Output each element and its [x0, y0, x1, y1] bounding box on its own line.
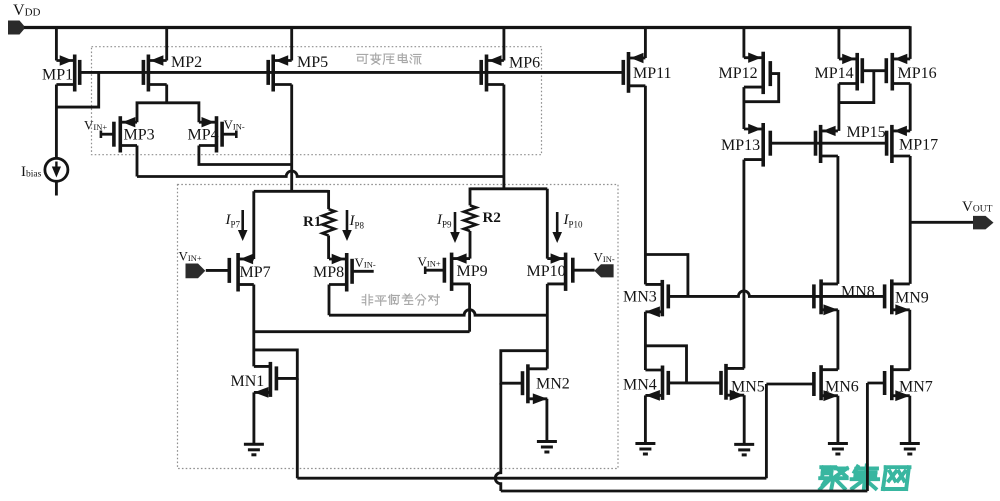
- input flag VIN- at MP10: [594, 264, 613, 277]
- wire: MP14 gate-drain diode tie: [839, 71, 874, 103]
- svg-text:VOUT: VOUT: [962, 199, 993, 215]
- wire: MP6 drain down to diff-pair right rail: [502, 85, 505, 189]
- svg-text:VIN+: VIN+: [179, 249, 202, 264]
- VOUT output flag: [973, 216, 994, 230]
- svg-text:MN8: MN8: [841, 284, 875, 301]
- wire: MP7 gate lead: [206, 269, 230, 272]
- wire: MP10 drain down to MN2 drain: [546, 284, 549, 369]
- svg-text:MP15: MP15: [847, 124, 886, 141]
- svg-text:MP2: MP2: [171, 54, 202, 71]
- wire: bottom rail 1 from MN1 gate to MN6 gate: [297, 477, 766, 480]
- svg-text:R2: R2: [483, 210, 501, 226]
- svg-text:MP5: MP5: [297, 54, 328, 71]
- wire: MP14 gate rail to MP16 gate: [862, 69, 886, 72]
- current arrow I_P8: [342, 210, 352, 241]
- wire: MN9 source down to MN7 drain: [908, 310, 911, 370]
- wire: MP3-drain to MP6-drain rail with hop over MP5 drain: [137, 171, 504, 176]
- ground at MN7: [900, 444, 920, 455]
- svg-text:MP9: MP9: [457, 263, 488, 280]
- wire: MP11 drain dogleg to MN3 gate rail: [645, 255, 688, 297]
- wire: MN1 gate-drain diode tie: [254, 350, 297, 379]
- watermark text 可变尾电流: [357, 53, 421, 64]
- wire: MN2 source to ground: [545, 399, 548, 442]
- wire: MP2 drain down to MP3/MP4 source rail: [165, 85, 168, 103]
- wire: MP15 drain down to MN8 drain: [836, 156, 839, 284]
- wire: VDD rail end down to MP16 source: [909, 26, 912, 59]
- wire: MP8 drain down to cross rail: [328, 285, 331, 316]
- wire: VDD to MP5 source: [290, 26, 293, 60]
- wire: MN7 source to ground: [908, 396, 911, 444]
- svg-text:IP8: IP8: [349, 213, 365, 231]
- watermark text 非平衡差分对: [362, 294, 439, 305]
- wire: MN2 gate node down to bottom rail 2 (hops over rail 1): [495, 383, 501, 491]
- svg-text:MP16: MP16: [898, 65, 937, 82]
- wire: right diff-pair source rail (R2/MP10): [470, 187, 547, 190]
- wire: MP13 drain down to MN5 drain: [742, 160, 745, 369]
- wire: MP3 drain down to long tail rail: [136, 146, 139, 177]
- svg-text:MP10: MP10: [527, 263, 566, 280]
- svg-text:VIN-: VIN-: [224, 117, 245, 132]
- wire: MP12 gate-drain diode connection: [744, 74, 779, 102]
- transistor MN3: [645, 280, 668, 317]
- wire: MN2 gate-drain diode tie: [501, 351, 548, 384]
- wire: R1 bottom lead to MP8 source: [327, 236, 330, 260]
- svg-text:MP11: MP11: [633, 65, 672, 82]
- dashed box: variable tail current group: [92, 47, 542, 155]
- wire: MN4-MN5 gate rail: [668, 381, 721, 384]
- transistor MN6: [814, 365, 838, 401]
- wire: MN6 gate lead: [766, 383, 814, 386]
- wire: MP16 drain down to MP17 source: [909, 84, 912, 131]
- ground at MN1: [244, 444, 264, 455]
- wire: Ibias bottom stub: [55, 181, 58, 195]
- transistor MP6: [481, 55, 504, 92]
- wire: MP3/MP4 common source rail: [137, 103, 199, 122]
- wire: MN7 gate lead: [867, 382, 884, 385]
- transistor MP5: [268, 55, 292, 92]
- svg-text:IP9: IP9: [436, 212, 452, 230]
- transistor MP4: [199, 116, 222, 152]
- svg-text:MN5: MN5: [731, 379, 765, 396]
- ground at MN5: [734, 444, 754, 455]
- current arrow I_P9: [450, 212, 460, 243]
- svg-text:MP1: MP1: [42, 67, 73, 84]
- wire: VDD to MP11 source: [644, 26, 647, 58]
- transistor MP13: [744, 123, 770, 167]
- svg-text:VIN+: VIN+: [418, 254, 441, 269]
- current source Ibias: [45, 158, 68, 181]
- wire: VDD to MP1 source: [55, 26, 58, 60]
- transistor MP14: [839, 53, 862, 91]
- svg-text:MP13: MP13: [721, 137, 760, 154]
- svg-text:MN9: MN9: [895, 290, 929, 307]
- svg-text:MN3: MN3: [623, 289, 657, 306]
- transistor MP7: [229, 253, 254, 292]
- svg-text:VDD: VDD: [13, 2, 41, 19]
- svg-text:R1: R1: [303, 214, 321, 230]
- wire: bottom rail 2 riser to MN7 gate: [866, 383, 869, 491]
- resistor R2: [464, 205, 476, 231]
- transistor MN4: [645, 366, 668, 401]
- svg-text:MP17: MP17: [899, 137, 938, 154]
- wire: MN3/MN8/MN9 gate rail with hop over MP13-MN5 column: [668, 291, 884, 296]
- transistor MP3: [114, 116, 137, 152]
- svg-text:IP7: IP7: [225, 212, 241, 230]
- ground at MN4: [635, 444, 655, 455]
- current arrow I_P7: [238, 210, 248, 241]
- transistor MP17: [887, 125, 911, 163]
- wire: cascode gate rail MP13-MP15-MP17: [770, 142, 886, 145]
- wire: VDD to MP2 source: [165, 26, 168, 60]
- wire: MP4 gate lead with input tick: [222, 131, 236, 139]
- svg-text:MN7: MN7: [899, 379, 933, 396]
- svg-text:Ibias: Ibias: [21, 164, 42, 180]
- wire: MN4 source to ground: [644, 395, 647, 443]
- wire: R1 top lead: [327, 190, 330, 209]
- wire: MP17 drain down to VOUT node and MN9 drain: [909, 156, 912, 284]
- resistor R1: [322, 209, 334, 235]
- transistor MN2: [523, 364, 548, 404]
- wire: MP14 drain down to MP15 source: [837, 84, 840, 131]
- wire: MP12 drain down to MP13 source: [742, 87, 745, 129]
- transistor MP1: [56, 55, 79, 92]
- ground at MN2: [537, 442, 557, 453]
- wire: MN3 source tie to MN4/MN5 gate rail: [645, 346, 686, 383]
- transistor MP12: [744, 52, 770, 94]
- wire: bottom rail 1 riser to MN6 gate: [765, 384, 768, 478]
- transistor MP11: [623, 52, 645, 93]
- svg-text:MP8: MP8: [313, 264, 344, 281]
- transistor MN9: [885, 279, 910, 315]
- wire: MN1 gate node down to bottom rail: [296, 378, 299, 478]
- wire: MP5 drain down to diff-pair left rail (crosses tail rail): [290, 85, 293, 192]
- svg-text:MN4: MN4: [623, 377, 657, 394]
- wire: R2 top lead: [469, 188, 472, 206]
- input flag VIN+ at MP7: [186, 264, 206, 279]
- transistor MP16: [886, 53, 910, 91]
- watermark logo 聚集网: [820, 466, 909, 490]
- wire: MP3 gate lead with input tick: [101, 131, 114, 139]
- wire: MP9 gate lead with input tick: [425, 267, 444, 275]
- svg-text:MP3: MP3: [124, 127, 155, 144]
- wire: MP8-MP10 drain rail with hop over MP9 drain: [329, 310, 547, 316]
- wire: left diff-pair source rail (MP7/R1): [254, 190, 329, 193]
- transistor MP2: [143, 55, 166, 92]
- svg-text:VIN-: VIN-: [594, 250, 615, 265]
- transistor MN5: [721, 364, 744, 401]
- transistor MN7: [885, 365, 910, 401]
- VDD input flag: [8, 21, 26, 35]
- wire: MN5 source to ground: [743, 395, 746, 444]
- wire: bottom rail 2 from MN2 gate to MN7 gate: [501, 490, 868, 493]
- current arrow I_P10: [552, 212, 562, 243]
- ground at MN6: [828, 444, 848, 455]
- wire: MN6 source to ground: [836, 396, 839, 444]
- transistor MN8: [814, 279, 838, 315]
- wire: MP4 drain dogleg to MP5 drain column: [199, 146, 292, 165]
- svg-text:MN1: MN1: [231, 373, 265, 390]
- svg-text:MP14: MP14: [815, 65, 854, 82]
- svg-text:MN6: MN6: [825, 379, 859, 396]
- transistor MN1: [254, 362, 277, 398]
- wire: MP7 drain down to MN1 drain: [252, 285, 255, 367]
- transistor MP10: [547, 253, 573, 291]
- wire: R2 bottom lead to MP9 source: [469, 231, 472, 259]
- wire: VDD to MP12 source: [742, 26, 745, 58]
- wire: MP10 gate lead: [573, 269, 595, 272]
- svg-text:VIN+: VIN+: [84, 118, 107, 133]
- transistor MP9: [444, 253, 470, 291]
- svg-text:MN2: MN2: [536, 376, 570, 393]
- wire: VDD to MP14 source: [837, 26, 840, 59]
- svg-text:IP10: IP10: [563, 212, 584, 230]
- svg-text:MP7: MP7: [240, 264, 271, 281]
- svg-text:MP6: MP6: [509, 55, 540, 72]
- svg-text:VIN-: VIN-: [355, 255, 376, 270]
- wire: MN8 source down to MN6 drain: [836, 310, 839, 370]
- wire: right rail down to MP10 source: [546, 189, 549, 259]
- wire: VOUT tap: [910, 221, 973, 224]
- wire: gate bias rail MP1-MP2-MP5-MP6-MP11: [80, 71, 624, 74]
- wire: left rail down to MP7 source: [252, 191, 255, 259]
- wire: VDD to MP6 source: [502, 26, 505, 60]
- wire: MP1 drain down to Ibias: [55, 85, 58, 159]
- wire: MN1 source to ground: [252, 392, 255, 444]
- dashed box: unbalanced differential pair group: [178, 185, 619, 469]
- wire: MN3 source down to MN4 drain: [644, 312, 647, 370]
- svg-text:MP12: MP12: [719, 65, 758, 82]
- wire: MP9 drain down through hop to MP7-MP9 rail: [468, 284, 471, 332]
- wire: MP7-MP9 drain rail: [254, 330, 470, 333]
- wire: VDD rail: [24, 26, 910, 29]
- wire: MP1 gate-drain diode connection: [56, 72, 98, 107]
- wire: MP8 gate lead: [352, 270, 374, 273]
- svg-text:MP4: MP4: [188, 127, 219, 144]
- transistor MP15: [816, 125, 838, 163]
- wire: MP11 drain down to MN3 drain: [644, 86, 647, 285]
- transistor MP8: [329, 253, 352, 292]
